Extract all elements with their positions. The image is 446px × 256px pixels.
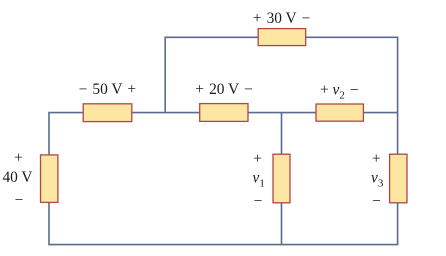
svg-text:−: − <box>254 193 263 210</box>
svg-text:v1: v1 <box>253 170 265 190</box>
svg-text:−: − <box>372 193 381 210</box>
svg-text:− 50 V +: − 50 V + <box>79 81 136 98</box>
wire: middle horizontal between 20V and v2 resistors <box>248 112 316 114</box>
svg-text:+: + <box>372 150 381 167</box>
svg-text:+ 30 V −: + 30 V − <box>253 10 310 27</box>
wire: middle horizontal between 50V and 20V resistors <box>132 112 200 114</box>
resistor: 30 V element (top) <box>258 29 306 46</box>
wire: middle-left horizontal + left vertical upper <box>49 113 83 155</box>
wire: top-right horizontal + right vertical upper <box>306 37 398 154</box>
svg-text:v3: v3 <box>371 170 384 190</box>
wire: middle horizontal right of v2 resistor <box>363 112 397 114</box>
wire: middle vertical lower (v1 to bottom) <box>281 203 283 245</box>
svg-text:−: − <box>15 191 24 208</box>
wire: left vertical lower + bottom wire + right vertical lower <box>49 202 398 244</box>
svg-text:+ 20 V −: + 20 V − <box>195 81 252 98</box>
svg-text:+: + <box>253 150 262 167</box>
source: 40 V element (left branch) <box>41 155 58 203</box>
wire: middle vertical upper (node to v1) <box>281 113 283 155</box>
svg-text:+ v2 −: + v2 − <box>320 82 359 102</box>
resistor: 20 V element <box>200 104 248 122</box>
resistor: 50 V element <box>83 104 132 122</box>
resistor: v3 element (right branch) <box>390 154 407 203</box>
svg-text:+: + <box>14 149 23 166</box>
svg-text:40 V: 40 V <box>2 169 32 186</box>
resistor: v1 element (middle branch) <box>273 154 290 203</box>
wire: top loop left vertical + top-left horizontal <box>165 37 258 112</box>
resistor: v2 element <box>316 104 363 121</box>
